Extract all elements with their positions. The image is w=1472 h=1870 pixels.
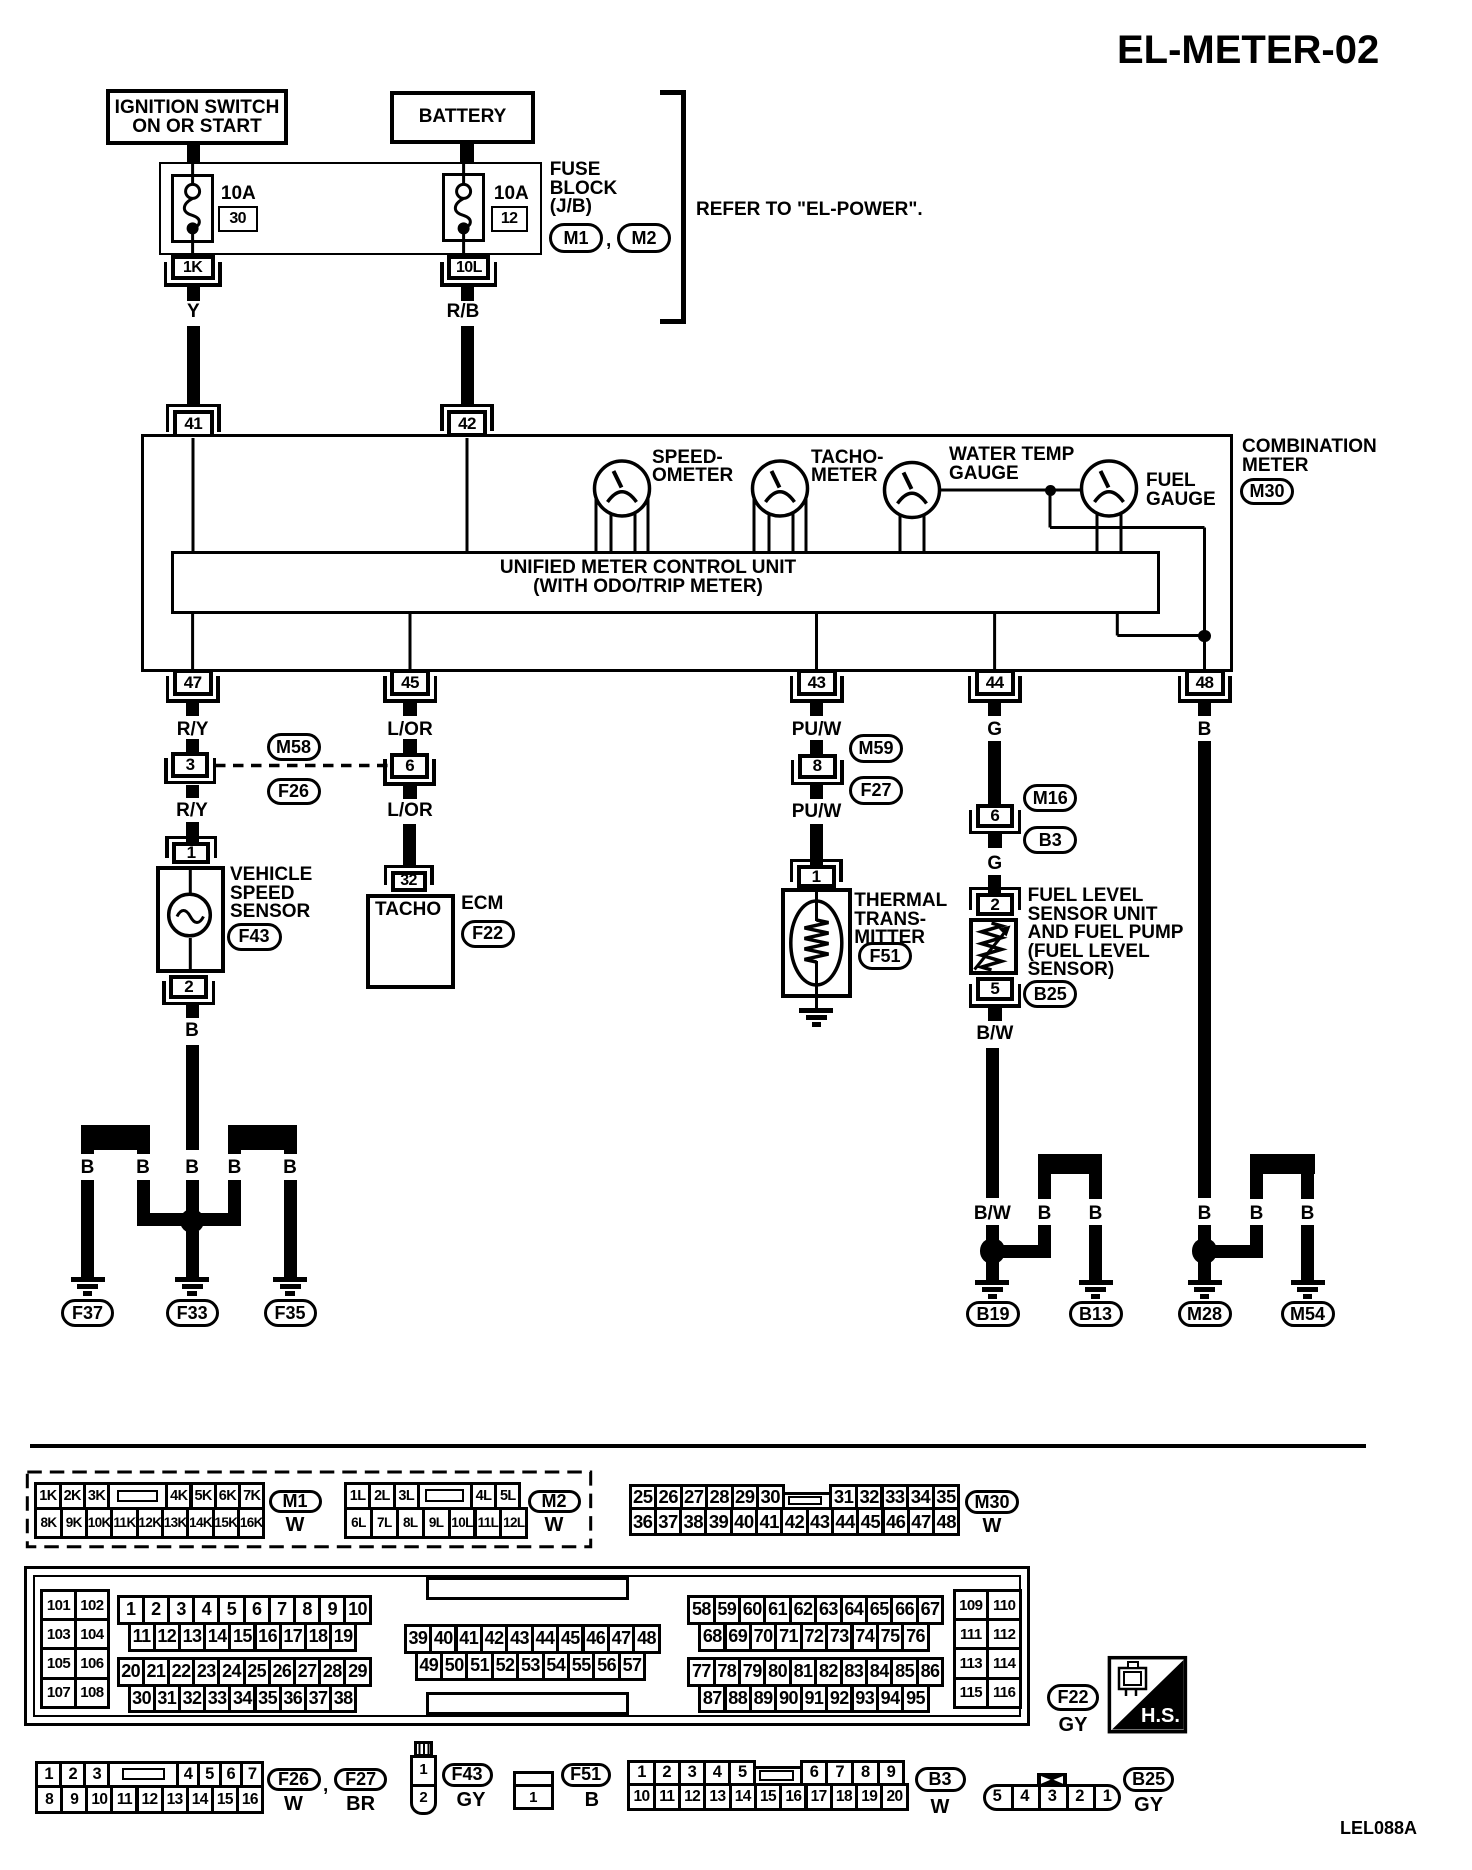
svg-text:H.S.: H.S. <box>1141 1705 1180 1727</box>
